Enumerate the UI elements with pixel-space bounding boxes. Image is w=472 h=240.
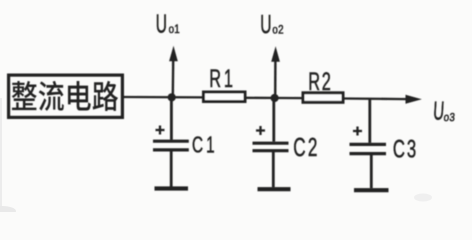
arrow Uo2 — [271, 46, 280, 97]
svg-text:C1: C1 — [192, 132, 218, 158]
resistor R1 — [204, 92, 246, 102]
junction node 1 — [168, 93, 176, 101]
label Uo3 — [432, 96, 455, 125]
plus sign C3 — [353, 127, 362, 136]
svg-text:U: U — [156, 9, 167, 38]
label Uo1 — [156, 9, 180, 38]
rectifier block box — [9, 75, 123, 117]
resistor R2 — [303, 93, 343, 103]
svg-text:o3: o3 — [443, 111, 456, 124]
plus sign C1 — [156, 126, 165, 135]
arrow Uo3 output head — [406, 95, 422, 104]
wire: R2 to output — [343, 97, 408, 100]
svg-text:C3: C3 — [393, 135, 418, 163]
capacitor C1 — [153, 97, 189, 187]
capacitor C3 — [350, 98, 387, 188]
capacitor C2 — [253, 98, 289, 187]
junction node 2 — [271, 94, 279, 102]
svg-text:R1: R1 — [209, 66, 236, 93]
label Uo2 — [260, 10, 283, 39]
svg-text:C2: C2 — [293, 132, 320, 162]
svg-text:R2: R2 — [308, 69, 332, 96]
svg-text:U: U — [260, 10, 271, 39]
wire: R1 to R2 — [245, 97, 304, 100]
label 整流电路 — [12, 81, 118, 111]
arrow Uo1 — [169, 46, 178, 97]
wire: box to R1 — [123, 96, 204, 99]
svg-text:o2: o2 — [272, 24, 283, 37]
plus sign C2 — [256, 126, 265, 135]
ground bar C3 — [354, 188, 389, 192]
ground bar C2 — [258, 187, 291, 191]
svg-text:o1: o1 — [169, 23, 180, 36]
ground bar C1 — [155, 186, 189, 190]
